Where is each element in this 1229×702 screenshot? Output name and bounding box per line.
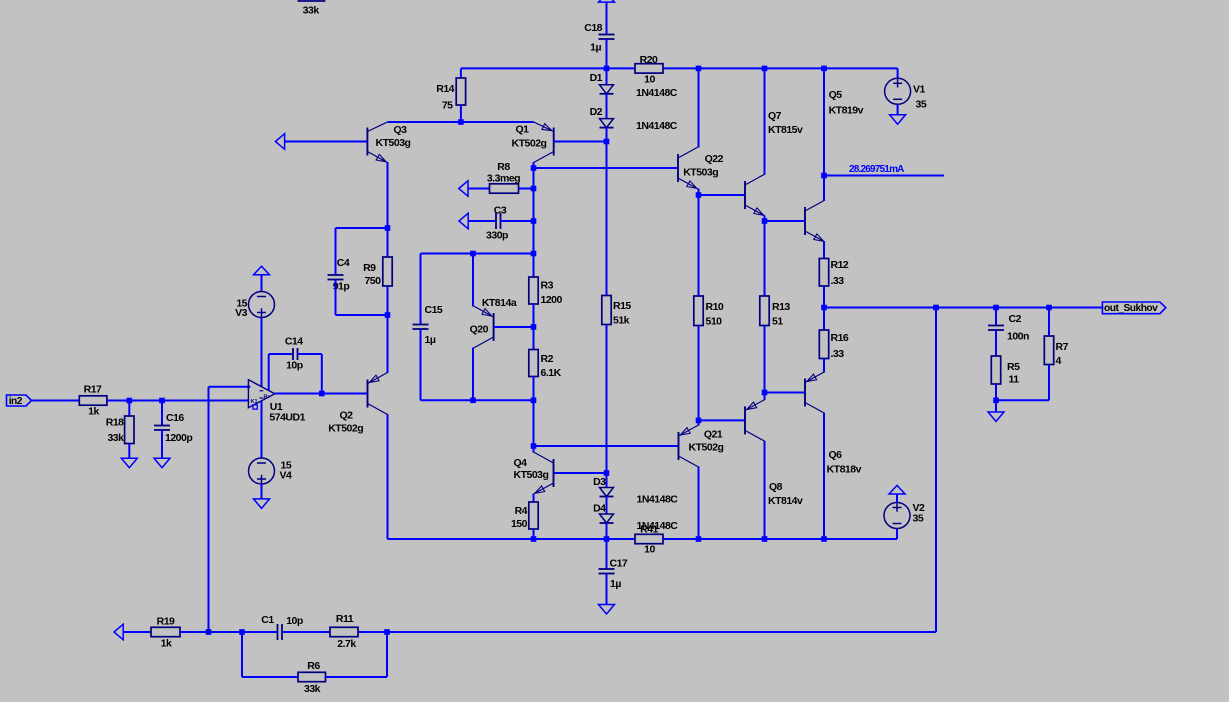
- transistor Q21 KT502g: [679, 425, 724, 467]
- svg-text:R11: R11: [336, 613, 354, 625]
- wire R13 to Q8 emitter: [764, 326, 766, 400]
- capacitor C1 10p: [261, 614, 303, 640]
- resistor R10 510: [694, 296, 724, 328]
- transistor Q20 KT814a: [470, 297, 517, 348]
- svg-text:Q8: Q8: [769, 481, 783, 493]
- resistor R17 1k: [79, 384, 107, 418]
- svg-text:D1: D1: [590, 72, 603, 84]
- svg-text:Q5: Q5: [829, 89, 843, 101]
- junction V+ rail / C18-D1 node: [604, 66, 610, 72]
- junction V+ rail / Q7 collector: [762, 66, 768, 72]
- junction Q7 emitter / Q5 base: [762, 218, 768, 224]
- svg-text:R20: R20: [640, 54, 658, 66]
- svg-text:R17: R17: [84, 384, 102, 396]
- wire C4 to bottom branch: [335, 280, 337, 316]
- wire output to R7: [1048, 308, 1050, 337]
- transistor Q2 KT502g: [328, 373, 387, 435]
- input tie arrow at Q3 base: [275, 134, 284, 150]
- svg-text:KT502g: KT502g: [689, 442, 724, 454]
- svg-text:R4: R4: [515, 505, 528, 517]
- svg-text:10: 10: [644, 544, 655, 556]
- svg-text:330p: 330p: [486, 230, 508, 242]
- transistor Q4 KT503g: [514, 452, 554, 494]
- voltage source V2 35V: [884, 502, 925, 529]
- wire R12 to output node: [823, 286, 825, 308]
- wire V- rail to C17: [606, 539, 608, 569]
- node flag in2: [7, 395, 32, 407]
- node flag out_Sukhov: [1102, 302, 1165, 314]
- current annotation 28.269751mA: [824, 164, 944, 176]
- tie arrow at C3: [459, 213, 468, 229]
- junction R14 bottom: [458, 119, 464, 125]
- svg-text:KT502g: KT502g: [328, 423, 363, 435]
- svg-text:.33: .33: [831, 348, 845, 360]
- svg-text:33k: 33k: [303, 5, 320, 17]
- wire Q20 emitter up: [472, 254, 474, 307]
- junction R2 bottom node: [531, 398, 537, 404]
- wire feedback vertical to bottom network: [208, 387, 210, 632]
- svg-text:R41: R41: [640, 524, 658, 536]
- wire node to Q8 base: [699, 419, 746, 421]
- svg-text:R10: R10: [706, 301, 724, 313]
- svg-text:R14: R14: [436, 83, 454, 95]
- resistor R4 150: [511, 502, 538, 530]
- wire R10 to Q21 emitter: [698, 326, 700, 426]
- junction V+ rail / Q5 collector: [821, 66, 827, 72]
- wire V- rail right segment: [663, 538, 897, 540]
- svg-text:KT503g: KT503g: [376, 137, 411, 149]
- junction output / R7: [1046, 305, 1052, 311]
- junction V- rail / Q21 collector: [696, 536, 702, 542]
- wire C2 to R5: [995, 330, 997, 356]
- wire C15/Q20 top rail: [421, 253, 534, 255]
- capacitor C18 1u: [584, 22, 614, 54]
- svg-text:1µ: 1µ: [610, 578, 621, 590]
- transistor Q7 KT815v: [745, 110, 803, 216]
- svg-text:KT819v: KT819v: [829, 105, 864, 117]
- svg-text:750: 750: [364, 275, 381, 287]
- junction Q8 emitter / Q6 base: [762, 390, 768, 396]
- transistor Q22 KT503g: [678, 147, 724, 189]
- wire V1 plus lead: [897, 68, 899, 78]
- junction feedback / R6 branch right: [384, 629, 390, 635]
- svg-text:Q3: Q3: [393, 124, 407, 136]
- wire Q1 base to D2 node: [554, 141, 607, 143]
- diode D4 1N4148C: [593, 503, 678, 533]
- svg-text:Q4: Q4: [514, 457, 528, 469]
- junction D2 / Q1 base node: [604, 139, 610, 145]
- wire V+ rail to R14: [460, 68, 462, 78]
- wire node to Q6 base: [765, 392, 806, 394]
- svg-text:35: 35: [916, 99, 927, 111]
- transistor Q1 KT502g: [512, 122, 554, 163]
- svg-text:1200p: 1200p: [165, 432, 192, 444]
- svg-text:C18: C18: [584, 22, 602, 34]
- wire R9 to bottom node: [387, 286, 389, 315]
- svg-text:Q1: Q1: [515, 124, 529, 136]
- resistor R15 51k: [602, 296, 632, 327]
- svg-text:1N4148C: 1N4148C: [636, 87, 678, 99]
- svg-text:out_Sukhov: out_Sukhov: [1104, 303, 1158, 314]
- tie arrow at R19: [114, 624, 123, 640]
- voltage source V4 15V: [249, 458, 293, 484]
- wire R8 to node: [519, 188, 534, 190]
- capacitor C15 1u: [413, 304, 443, 346]
- diode D1 1N4148C: [590, 72, 678, 99]
- wire Q22 emitter down to R10: [698, 189, 700, 297]
- voltage source V3 15V: [235, 292, 274, 319]
- wire R5 to ground node: [995, 384, 997, 400]
- resistor R41 10: [635, 524, 663, 556]
- wire arrow to R19: [123, 631, 151, 633]
- svg-text:11: 11: [1009, 374, 1020, 386]
- svg-text:V3: V3: [235, 307, 248, 319]
- svg-text:R3: R3: [541, 280, 554, 292]
- svg-text:KT814a: KT814a: [482, 297, 517, 309]
- resistor R9 750: [363, 257, 392, 287]
- wire R6 branch left leg: [241, 632, 243, 677]
- wire Q6 collector to V- rail: [823, 413, 825, 539]
- voltage source V1 35V: [885, 78, 927, 110]
- wire output node to R16: [823, 308, 825, 331]
- wire node to Q22 base: [534, 167, 679, 169]
- svg-text:10p: 10p: [286, 360, 303, 372]
- wire output node to out_Sukhov flag: [824, 307, 1103, 309]
- wire arrow to Q3 base: [285, 141, 368, 143]
- junction V+ rail / Q22 collector: [696, 66, 702, 72]
- power arrow top (V+ tie): [599, 0, 615, 2]
- junction V- rail / Q8 collector: [762, 536, 768, 542]
- tie arrow at R8: [459, 181, 468, 197]
- resistor R14 75: [436, 78, 465, 112]
- wire R18 to ground: [128, 444, 130, 459]
- junction Q21 emitter / Q8 base: [696, 418, 702, 424]
- junction R8 node: [531, 186, 537, 192]
- junction current probe point: [821, 173, 827, 179]
- svg-text:C16: C16: [166, 412, 184, 424]
- wire Q8 collector to V- rail: [764, 441, 766, 539]
- ground below V4: [254, 499, 270, 509]
- svg-text:150: 150: [511, 518, 528, 530]
- svg-text:Q7: Q7: [768, 110, 782, 122]
- wire Q3 collector to Q1 emitter: [388, 121, 534, 123]
- wire V+ rail left segment: [461, 67, 635, 69]
- wire Q20 base to R3/R2 node: [494, 326, 534, 328]
- svg-text:C14: C14: [285, 336, 303, 348]
- wire V- rail left segment: [388, 538, 636, 540]
- wire R6 branch right leg: [386, 632, 388, 677]
- wire arrow to C3: [468, 220, 496, 222]
- wire Q20 bottom rail: [421, 399, 534, 401]
- junction output / feedback takeoff: [933, 305, 939, 311]
- svg-text:100n: 100n: [1007, 331, 1029, 343]
- wire Q4 emitter to R4: [533, 494, 535, 503]
- svg-text:1k: 1k: [161, 638, 172, 650]
- wire C14 top right: [298, 353, 322, 355]
- wire Q20 collector down: [472, 348, 474, 401]
- svg-text:C1: C1: [261, 614, 274, 626]
- wire R7 bottom to ground node: [996, 399, 1049, 401]
- junction C16 top: [159, 398, 165, 404]
- junction Q20 collector bottom: [470, 398, 476, 404]
- svg-text:510: 510: [706, 316, 723, 328]
- diode D3 1N4148C: [593, 476, 678, 506]
- wire C4 branch down: [335, 228, 337, 275]
- svg-text:D3: D3: [593, 476, 606, 488]
- svg-text:R12: R12: [831, 259, 849, 271]
- svg-text:35: 35: [913, 513, 924, 525]
- svg-text:C4: C4: [337, 257, 350, 269]
- resistor R8 3.3meg: [487, 161, 520, 193]
- svg-text:KT815v: KT815v: [768, 124, 803, 136]
- wire non-inverting input: [209, 386, 249, 388]
- capacitor C3 330p: [486, 205, 508, 242]
- svg-text:C3: C3: [494, 205, 507, 217]
- wire top arrow to C18: [606, 2, 608, 34]
- resistor R20: [635, 54, 663, 86]
- svg-text:33k: 33k: [304, 683, 321, 695]
- junction C14 / op-amp output: [319, 391, 325, 397]
- junction R9/C4 top node: [385, 225, 391, 231]
- wire op-amp output to Q2 base: [275, 393, 368, 395]
- wire top node to C4 branch: [336, 227, 388, 229]
- transistor Q3 KT503g: [367, 122, 410, 163]
- junction R18 top: [127, 398, 133, 404]
- svg-text:R5: R5: [1007, 361, 1020, 373]
- svg-text:KT503g: KT503g: [683, 167, 718, 179]
- svg-text:R>: R>: [264, 394, 271, 400]
- svg-text:Q2: Q2: [339, 410, 353, 422]
- resistor 33k (partial, top edge): [299, 0, 325, 17]
- wire node to R3: [533, 254, 535, 278]
- wire output to C2: [995, 308, 997, 326]
- wire rail to D1 anode: [606, 68, 608, 84]
- junction Q4 base / R15 / D3: [604, 470, 610, 476]
- junction C3 node: [531, 218, 537, 224]
- resistor R19 1k: [151, 616, 180, 650]
- wire C17 to ground: [606, 574, 608, 605]
- wire Q1 collector down: [533, 162, 535, 168]
- capacitor C17 1u: [599, 558, 628, 591]
- transistor Q6 KT818v: [805, 372, 862, 476]
- junction Q4 collector node: [531, 443, 537, 449]
- svg-text:C2: C2: [1009, 313, 1022, 325]
- wire node to R18: [128, 401, 130, 417]
- svg-text:1µ: 1µ: [425, 334, 436, 346]
- svg-text:1N4148C: 1N4148C: [637, 494, 679, 506]
- resistor R7 4: [1044, 336, 1068, 367]
- svg-text:Q21: Q21: [704, 429, 723, 441]
- wire C14 left leg: [268, 354, 270, 390]
- wire Q21 collector to V- rail: [698, 467, 700, 540]
- svg-text:R9: R9: [363, 262, 376, 274]
- junction R3 top node: [531, 251, 537, 257]
- junction R9/C4 bottom node: [385, 312, 391, 318]
- svg-text:in2: in2: [9, 396, 23, 407]
- wire C18 to V+ rail: [606, 39, 608, 68]
- ground below C17: [599, 605, 615, 615]
- resistor R3 1200: [529, 277, 563, 306]
- svg-text:R7: R7: [1056, 341, 1069, 353]
- resistor R13 51: [760, 296, 791, 328]
- svg-text:D4: D4: [593, 503, 606, 515]
- wire Q4 base to D3 node: [554, 472, 607, 474]
- wire arrow to V3: [261, 275, 263, 292]
- wire node down to Q4 collector node: [533, 400, 535, 446]
- junction R5/R7 ground node: [993, 398, 999, 404]
- wire C15 left branch down: [420, 254, 422, 325]
- junction Q20 emitter top: [470, 251, 476, 257]
- wire node to R9: [387, 228, 389, 257]
- wire R4 to V- rail: [533, 529, 535, 539]
- svg-text:1200: 1200: [541, 294, 563, 306]
- wire C4 branch to bottom node: [336, 314, 388, 316]
- svg-text:75: 75: [442, 100, 453, 112]
- wire node to Q5 base: [765, 220, 806, 222]
- svg-text:R16: R16: [831, 332, 849, 344]
- svg-text:28.269751mA: 28.269751mA: [849, 164, 904, 175]
- wire node to C16: [161, 401, 163, 426]
- svg-text:Q22: Q22: [705, 153, 724, 165]
- wire in2 to R17: [31, 400, 79, 402]
- svg-text:KT814v: KT814v: [768, 495, 803, 507]
- wire V+ rail right segment: [663, 67, 898, 69]
- wire node to Q7 base: [699, 194, 746, 196]
- wire R2 to bottom node: [533, 377, 535, 401]
- wire bias node down to R15: [606, 142, 608, 296]
- wire Q4 collector stub: [533, 446, 535, 453]
- junction V- rail / Q6 collector: [821, 536, 827, 542]
- wire node down to Q2 emitter: [387, 315, 389, 373]
- ground below R5: [988, 412, 1004, 422]
- wire R6 to right leg: [326, 676, 388, 678]
- svg-text:1k: 1k: [88, 406, 99, 418]
- wire R15 to Q4 base node: [606, 325, 608, 474]
- power arrow above V3: [254, 266, 270, 275]
- svg-text:10p: 10p: [286, 615, 303, 627]
- wire V4 to ground: [261, 484, 263, 499]
- resistor R12 .33: [819, 259, 849, 288]
- wire Q5 emitter to R12: [823, 242, 825, 259]
- junction R12/R16 output node: [821, 305, 827, 311]
- wire node to D3 anode: [606, 473, 608, 488]
- svg-text:KT818v: KT818v: [827, 464, 862, 476]
- wire D4 cathode to V- rail: [606, 523, 608, 539]
- svg-text:R8: R8: [497, 161, 510, 173]
- wire V- rail to V2 minus: [896, 529, 898, 540]
- svg-text:51: 51: [772, 316, 783, 328]
- svg-text:C15: C15: [425, 304, 443, 316]
- svg-text:KT502g: KT502g: [512, 138, 547, 150]
- svg-text:V4: V4: [280, 470, 293, 482]
- svg-text:1µ: 1µ: [590, 42, 601, 54]
- wire Q7 collector to V+ rail: [764, 68, 766, 174]
- svg-text:Q20: Q20: [470, 324, 489, 336]
- wire R19 to C1: [180, 631, 278, 633]
- wire node down to R8 node: [533, 168, 535, 189]
- resistor R2 6.1K: [529, 350, 562, 380]
- wire C14 top left: [269, 353, 293, 355]
- wire C15 to bottom rail: [420, 329, 422, 400]
- wire R3 to Q20 base node: [533, 304, 535, 327]
- svg-text:R19: R19: [157, 616, 175, 628]
- wire to R6: [242, 676, 298, 678]
- wire Q4 node to Q21 base: [534, 445, 680, 447]
- junction R3/R2/Q20 base: [531, 324, 537, 330]
- junction V- rail / D4 / C17: [604, 536, 610, 542]
- wire feedback vertical right: [935, 308, 937, 633]
- wire Q2 collector down to V- rail: [387, 414, 389, 539]
- wire V2 plus lead: [896, 494, 898, 503]
- svg-text:R2: R2: [541, 353, 554, 365]
- svg-text:4: 4: [1056, 355, 1062, 367]
- capacitor C16 1200p: [154, 412, 192, 444]
- wire Q22 collector to V+ rail: [698, 68, 700, 147]
- resistor R11 2.7k: [330, 613, 358, 650]
- wire feedback bottom long: [358, 631, 936, 633]
- wire D3 cathode to D4 anode: [606, 497, 608, 515]
- junction feedback vertical / bottom row: [206, 629, 212, 635]
- capacitor C2 100n: [988, 313, 1029, 343]
- wire node to ground: [995, 400, 997, 412]
- svg-text:R13: R13: [772, 301, 790, 313]
- junction Q22 emitter / Q7 base: [696, 192, 702, 198]
- capacitor C4 91p: [328, 257, 350, 293]
- svg-text:R18: R18: [106, 417, 124, 429]
- svg-text:10: 10: [644, 74, 655, 86]
- wire C16 to ground: [161, 430, 163, 458]
- wire Q7 emitter down to R13: [764, 216, 766, 297]
- resistor R5 11: [991, 356, 1020, 386]
- wire C14 right leg: [321, 354, 323, 394]
- wire R14 to Q3/Q1 emitter rail: [460, 105, 462, 122]
- svg-text:.33: .33: [831, 275, 845, 287]
- svg-text:Q6: Q6: [829, 449, 843, 461]
- wire R7 to ground node: [1048, 365, 1050, 401]
- wire arrow to R8: [468, 188, 490, 190]
- wire C1 to R11: [282, 631, 330, 633]
- junction output / C2: [993, 305, 999, 311]
- svg-text:33k: 33k: [107, 432, 124, 444]
- svg-text:R15: R15: [613, 300, 631, 312]
- wire V3 plus lead to op-amp V+ pin: [261, 318, 263, 387]
- wire V1 minus lead: [897, 104, 899, 114]
- svg-text:C17: C17: [610, 558, 628, 570]
- wire D1 cathode to D2 anode: [606, 94, 608, 119]
- svg-text:1N4148C: 1N4148C: [636, 120, 678, 132]
- wire C3 to node: [501, 220, 534, 222]
- svg-text:R6: R6: [307, 660, 320, 672]
- wire R17 to op-amp inverting input: [107, 400, 249, 402]
- svg-text:51k: 51k: [613, 315, 630, 327]
- resistor R18 33k: [106, 416, 134, 444]
- svg-text:KT503g: KT503g: [514, 469, 549, 481]
- junction R6 branch left: [239, 629, 245, 635]
- svg-text:3.3meg: 3.3meg: [487, 173, 520, 185]
- ground below R18: [121, 458, 137, 468]
- wire node to R2: [533, 327, 535, 350]
- op-amp U1 574UD1: [246, 380, 305, 424]
- svg-text:2.7k: 2.7k: [337, 638, 356, 650]
- transistor Q5 KT819v: [805, 89, 864, 242]
- wire R8 node down through C3 node: [533, 189, 535, 254]
- wire Q3 emitter down to R9/C4 node: [387, 162, 389, 228]
- power arrow above V2: [889, 485, 905, 494]
- resistor R16 .33: [819, 330, 849, 360]
- wire R16 to Q6 emitter: [823, 359, 825, 373]
- svg-text:V1: V1: [913, 84, 926, 96]
- svg-text:6.1K: 6.1K: [541, 367, 562, 379]
